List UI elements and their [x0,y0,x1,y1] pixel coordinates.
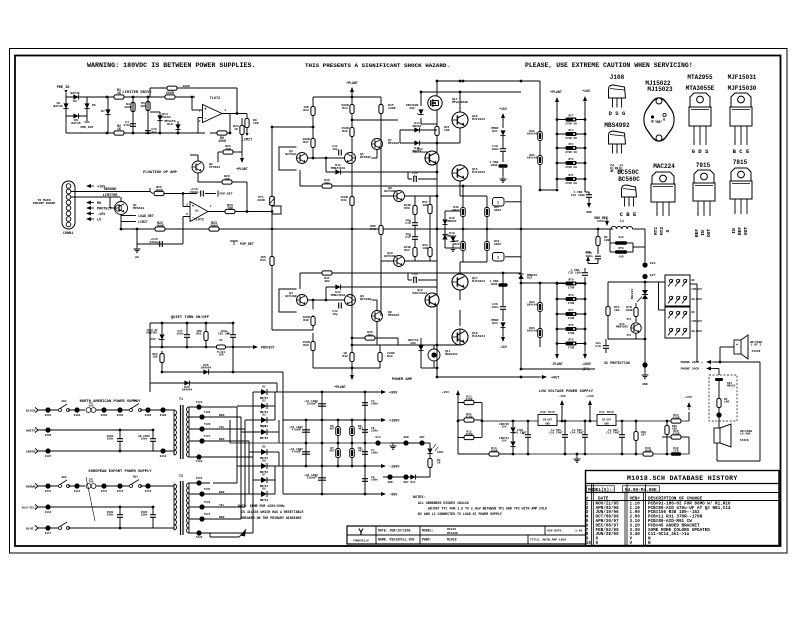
svg-text:*: * [616,149,618,154]
svg-text:3.40: 3.40 [575,530,582,533]
wire bundle v3 [213,429,245,443]
transistor Q8 MPSA56 [372,310,400,322]
svg-text:PREAMP BOARD: PREAMP BOARD [33,201,56,205]
node +90V arrow [378,390,398,396]
connector E102 [74,407,81,417]
svg-text:REF: REF [737,227,743,236]
diode D25 [201,364,212,375]
diode D12 MMBZ [331,164,346,175]
resistor R7A [606,306,620,316]
node -15V arrow [499,334,507,349]
svg-text:NT6: NT6 [569,324,574,327]
transistor Q12 MJE15031 [413,288,439,307]
switch SW1a [130,400,142,412]
package MBS4992 TO-92 [609,131,626,154]
wire [352,338,398,345]
junction [420,80,523,94]
wire [584,268,586,272]
wire [312,333,314,368]
svg-text:MBS4992: MBS4992 [604,122,630,129]
svg-text:U10 7915: U10 7915 [540,411,555,414]
resistor R50 [403,204,417,215]
wire [119,507,121,528]
svg-text:7815: 7815 [733,159,748,166]
diode D13 [331,284,346,296]
capacitor C15 [136,228,163,247]
capacitor C26 [491,303,506,309]
diode D16 MPSA56 [164,119,180,130]
svg-text:10: 10 [586,541,592,546]
svg-text:10K: 10K [422,204,428,207]
node LO [86,217,101,223]
svg-text:0R22: 0R22 [494,209,501,212]
svg-text:R43: R43 [387,354,393,358]
svg-text:28V: 28V [151,338,156,341]
svg-text:2K2: 2K2 [324,279,330,283]
wire [68,485,85,487]
svg-text:E24: E24 [376,436,381,439]
svg-text:180A: 180A [490,283,497,286]
wire bundle e1 [213,493,249,495]
switch SW2a [59,400,70,412]
package MJ15022 TO-3 can [640,92,678,147]
wire [717,362,760,461]
title date [378,529,411,533]
svg-text:100n: 100n [371,479,378,482]
wire [436,261,438,287]
resistor R2 [717,398,730,408]
svg-text:+PLANT: +PLANT [550,90,562,94]
wire [407,172,409,179]
wire [718,381,720,413]
svg-text:-PLANT: -PLANT [551,362,563,366]
wire bundle v4 [213,441,249,494]
svg-text:R61: R61 [196,333,201,336]
revision table outer [586,471,780,546]
svg-text:OUT: OUT [706,229,712,238]
node +180V arrow [378,418,400,424]
diode D27 [410,474,415,484]
junction dots [305,391,367,496]
package MJF15030 label [728,85,757,92]
svg-text:DATE: JUN/19/1995: DATE: JUN/19/1995 [378,529,411,533]
svg-text:E102: E102 [74,414,81,417]
svg-text:IN: IN [700,230,706,236]
ground [390,443,397,449]
connector E107 [45,448,52,458]
svg-text:MJ15023: MJ15023 [647,86,673,93]
wire GROUND [71,188,150,192]
wire [299,170,301,186]
capacitor C4 [123,120,136,127]
svg-text:+15V: +15V [586,394,594,398]
diode D6 BAT46 [71,113,80,125]
wire [539,283,541,347]
svg-text:MBS4992: MBS4992 [616,326,628,329]
svg-text:M1018.SCH DATABASE HISTORY: M1018.SCH DATABASE HISTORY [627,475,738,482]
connector E116 [45,504,52,514]
connector E105 [145,407,152,417]
wire bundle v1 [210,407,237,466]
diode D7 [101,109,110,115]
wire [502,283,504,296]
svg-text:10K: 10K [227,207,233,211]
wire lv right [688,412,690,454]
junction [152,506,155,509]
svg-text:*: * [697,212,699,217]
label GREEN [26,450,35,454]
wire [502,168,504,176]
svg-text:MT2: MT2 [659,227,665,236]
transistor Q16 MJ15022 [452,112,485,128]
wire top right rails [421,81,540,132]
svg-text:3: 3 [199,109,201,113]
capacitor C6 [362,427,378,433]
svg-text:D6: D6 [262,460,266,463]
svg-text:+: + [204,108,207,113]
svg-text:R31: R31 [260,258,266,262]
wire [107,97,109,133]
svg-text:270R: 270R [568,302,575,305]
connector J4 [35,483,38,488]
node GND_REF [594,216,609,226]
switch SW1b [130,476,142,488]
node +180V arrow [582,89,590,104]
transistor Q3 BC560C [285,149,307,164]
svg-text:+PLANT: +PLANT [346,81,358,85]
transistor Q19 MBS4992 [616,318,641,337]
svg-text:E101: E101 [45,414,52,417]
wire bundle v5 [210,392,253,457]
svg-text:NO: NO [692,279,696,282]
diode D14 [157,112,170,121]
wire [241,118,243,155]
connector E25 [387,474,408,484]
svg-text:100R: 100R [491,450,498,453]
resistor R60 [489,280,507,287]
junction [182,192,185,195]
connector E111 [45,483,52,493]
svg-text:470n: 470n [123,123,131,127]
svg-text:D7: D7 [262,474,266,477]
svg-text:U2: U2 [219,339,223,342]
svg-text:D3: D3 [73,99,77,103]
svg-text:470R: 470R [673,417,680,420]
svg-text:MDA25: MDA25 [727,385,736,388]
svg-text:0R22: 0R22 [494,243,501,246]
svg-text:MPSA06: MPSA06 [388,141,399,145]
wire [190,155,198,182]
wire q3 base rail [272,126,313,128]
wire [162,372,283,392]
resistor R4 6u8 [615,236,627,250]
capacitor C16 [189,187,203,197]
wire line1 [38,485,58,487]
svg-text:4700u: 4700u [292,451,301,454]
mosfet Q14 MTW14N50E [428,96,469,110]
resistor R62 [152,353,164,363]
svg-text:PHONE JACK +: PHONE JACK + [681,360,704,364]
regulator U4 7815 [597,411,616,426]
svg-text:+180: +180 [582,89,590,93]
european export power supply label [88,470,152,474]
capacitor C9 [304,474,326,480]
svg-text:1N4004: 1N4004 [182,389,193,392]
package MBS4992 label [604,122,630,129]
wire feedback rail [271,127,273,330]
junction [120,126,274,231]
node -PLANT arrow [551,284,563,367]
wire [150,383,277,392]
svg-text:LOAD_DET: LOAD_DET [138,214,154,218]
diode D2 MR752 [260,400,269,415]
svg-text:+15V: +15V [499,107,507,111]
svg-text:T1: T1 [179,398,183,402]
svg-text:4700: 4700 [466,416,473,419]
svg-text:5: 5 [186,212,188,216]
svg-text:1: 1 [224,108,226,112]
svg-text:D3: D3 [262,414,266,417]
svg-text:PRE_IN: PRE_IN [57,86,70,90]
svg-text:1K0: 1K0 [614,309,620,312]
svg-text:D5: D5 [262,446,266,449]
svg-text:1500p: 1500p [189,190,198,194]
svg-text:STACK: STACK [752,350,761,353]
zener D24 [146,329,164,341]
junction [597,228,600,231]
wire pin2 [198,118,203,134]
package MJ15022 label [645,80,673,93]
package MBS4992 pins MT2 G MT1 [610,164,625,173]
svg-text:QUIET TURN ON/OFF: QUIET TURN ON/OFF [171,315,210,320]
tap T2-8 [189,530,210,539]
wire top rail [313,96,381,98]
svg-text:C33 100n: C33 100n [568,272,582,275]
node -PLANT arrow [350,368,354,380]
node PRE_OUT [80,122,93,129]
svg-text:100n: 100n [107,438,114,441]
svg-text:100R: 100R [388,106,396,110]
svg-text:+15V: +15V [442,390,450,394]
wire [377,261,437,345]
title block outer [347,526,586,544]
switch SW2c [59,522,70,530]
wire [87,96,107,98]
junction [719,361,722,364]
svg-text:ACN DATE:: ACN DATE: [547,530,563,533]
svg-text:100n: 100n [371,403,378,406]
node -180V arrow [378,464,400,470]
svg-text:R33: R33 [303,108,309,112]
op-amp U1B TL072 [186,202,212,222]
ground lv [574,454,581,462]
wire [120,215,122,230]
svg-text:1N4004: 1N4004 [201,367,212,370]
svg-text:R39: R39 [303,343,309,347]
relay contacts [668,311,687,335]
wire [150,112,160,133]
wire [173,484,175,530]
svg-text:4K7: 4K7 [329,428,334,431]
capacitor C31 [107,511,123,517]
node LOAD_DET [121,214,154,218]
capacitor C19 [595,342,609,348]
svg-text:BC560C: BC560C [618,176,640,183]
diode D17 [443,234,456,251]
led LED1 [427,444,444,454]
wire [218,152,223,162]
junction [539,189,559,192]
package J108 TO-92 [609,85,626,108]
svg-text:T8A: T8A [89,481,94,484]
zener D28 [499,423,516,433]
resistor R51 [422,201,432,214]
wire loop [279,289,297,312]
svg-text:LED: LED [673,450,678,453]
warning text 1 [87,62,256,70]
wire [610,229,645,252]
svg-text:MR852: MR852 [447,220,456,223]
connector E24 [375,436,380,446]
diode D18 [442,217,456,225]
wire [564,421,566,454]
resistor R65 [329,447,340,458]
connector CONN1 pins [66,184,71,227]
svg-text:C11-5C14_2k1->1u: C11-5C14_2k1->1u [648,532,690,537]
resistor R59 [527,327,542,338]
wire +90V rail [283,391,380,393]
wire rail 345 [352,344,460,346]
package BC550C pins C B E [620,211,637,218]
svg-text:T1#4: T1#4 [196,401,203,404]
capacitor C28 [218,330,236,337]
capacitor C32 [141,511,156,517]
fusible resistor chain top [556,115,587,186]
svg-text:7: 7 [210,204,212,208]
ground AG [134,246,141,259]
quiet turn on/off label [171,315,210,320]
resistor R28 [222,174,232,184]
resistor R37 [302,137,315,148]
wire bundle e5 [210,457,253,533]
package 7815 TO-220 [730,168,752,215]
wire [326,287,437,300]
capacitor C15 [412,172,418,182]
svg-text:R42: R42 [342,354,348,358]
wire line3 [38,450,174,452]
svg-text:R50: R50 [404,207,410,210]
svg-text:300R: 300R [124,105,132,109]
svg-text:GND: GND [545,423,550,426]
wire [152,430,154,451]
resistor R72 [458,431,482,440]
diode D16 MR852 [412,140,421,152]
jumper 2 [493,253,505,262]
svg-text:NT2: NT2 [569,158,574,161]
fuse F2 [86,478,96,488]
svg-text:-180V: -180V [581,362,591,366]
wire [445,229,460,248]
ground arrow [586,197,591,214]
junction [436,344,523,379]
capacitor C8 [362,476,378,482]
wire bottom rail [66,132,205,134]
capacitor C2 [289,426,310,432]
junction [520,368,523,371]
title name [378,538,414,542]
svg-text:D23: D23 [492,322,498,325]
package 7915 label [696,162,711,169]
diode D3 MR752 [260,414,269,429]
svg-text:20A: 20A [410,342,416,345]
wire [512,421,514,454]
node +15V [86,184,106,190]
svg-text:BC560C: BC560C [360,155,371,159]
svg-text:1K5: 1K5 [140,104,146,108]
resistor R49 [485,240,502,251]
node PHONE JACK + [681,360,714,364]
svg-text:JUN/28/00: JUN/28/00 [596,532,620,537]
wire [502,296,504,336]
wire [659,282,666,310]
wire loop [279,147,297,170]
package MAC224 TO-220 [651,172,675,217]
wire relay out [690,284,697,362]
junction [119,506,122,530]
diode D63 [527,154,542,165]
svg-text:E115: E115 [145,490,152,493]
transistor pack U2 [217,339,226,357]
inner border [15,56,781,547]
svg-text:M1018: M1018 [447,538,457,542]
capacitor C14 [412,273,418,283]
resistor R44 [435,126,450,136]
svg-text:DC PROTECTION: DC PROTECTION [604,361,629,365]
svg-text:270R 5W: 270R 5W [565,166,577,169]
svg-text:1K: 1K [117,127,121,131]
svg-text:100n: 100n [141,438,148,441]
wire [556,103,558,188]
svg-text:EUROPEAN EXPORT POWER SUPPLY: EUROPEAN EXPORT POWER SUPPLY [88,470,152,474]
junction [161,346,235,349]
wire cap bank verticals [283,392,365,494]
capacitor C13 [405,219,418,225]
resistor R73 [458,447,513,456]
tap T1-8 [189,454,210,463]
wire [299,273,301,289]
svg-text:OUT: OUT [743,227,749,236]
junction [351,119,354,122]
svg-text:10p: 10p [332,313,338,316]
resistor R24 [233,124,244,135]
package MJF15031 label [728,74,757,81]
svg-text:2200u: 2200u [307,403,316,406]
trimmer PT1 [257,195,275,206]
speaker LS1 [734,335,762,359]
svg-text:MT2: MT2 [627,318,632,321]
wire +180V rail [283,419,380,421]
svg-text:C B E: C B E [620,211,637,218]
resistor R8 [245,118,259,128]
wire [205,193,216,195]
wire [352,119,398,121]
wire [232,347,234,372]
wire rail 437 [436,81,438,377]
diode D22 [518,274,537,280]
capacitor C10 [145,127,157,134]
resistor R64 [350,425,364,436]
svg-text:-15V: -15V [499,345,507,349]
